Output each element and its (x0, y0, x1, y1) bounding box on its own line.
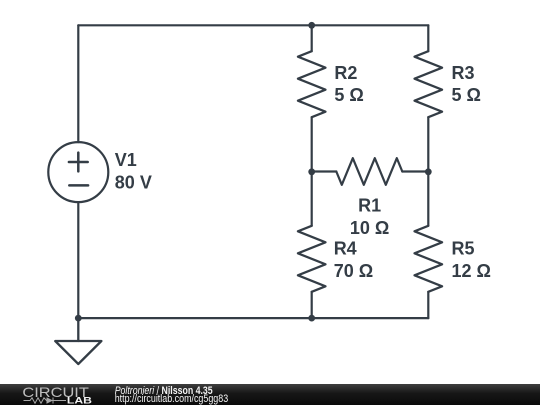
svg-text:R2: R2 (334, 63, 357, 83)
svg-text:R1: R1 (358, 195, 381, 215)
voltage source V1 (48, 142, 108, 202)
svg-text:R3: R3 (452, 63, 475, 83)
svg-text:12 Ω: 12 Ω (452, 261, 491, 281)
wire top horizontal (78, 24, 428, 26)
label R4 (334, 239, 373, 281)
svg-text:LAB: LAB (67, 395, 92, 405)
resistor R4 (298, 226, 326, 292)
wire left vertical upper (77, 25, 79, 142)
resistor R1 (336, 158, 402, 185)
CircuitLab logo resistor-diode glyph (24, 398, 67, 404)
wire mid column node to R4 (311, 172, 313, 226)
svg-text:70 Ω: 70 Ω (334, 261, 373, 281)
wire right column node to R5 (427, 172, 429, 226)
wire mid column lower lead (311, 292, 313, 318)
svg-text:10 Ω: 10 Ω (350, 218, 389, 238)
svg-text:R4: R4 (334, 239, 357, 259)
label R2 (334, 63, 363, 105)
wire right column between R3 and node (427, 117, 429, 172)
svg-text:5 Ω: 5 Ω (334, 85, 363, 105)
label R1 (350, 195, 389, 237)
svg-text:80 V: 80 V (115, 172, 152, 192)
wire R1 right lead (402, 170, 428, 172)
resistor R3 (415, 51, 443, 117)
resistor R2 (298, 51, 326, 117)
CircuitLab logo diode triangle (47, 397, 54, 404)
wire left vertical lower (77, 202, 79, 318)
wire mid column between R2 and node (311, 117, 313, 172)
wire R1 left lead (312, 170, 337, 172)
svg-text:http://circuitlab.com/cg5gg83: http://circuitlab.com/cg5gg83 (115, 393, 229, 405)
wire mid column upper lead (311, 25, 313, 51)
junction dot mid-left node (308, 168, 315, 175)
label R5 (452, 239, 491, 281)
junction dot mid-right node (425, 168, 432, 175)
svg-text:5 Ω: 5 Ω (452, 85, 481, 105)
junction dot bottom mid (308, 315, 315, 322)
junction dot top (308, 22, 315, 29)
wire right column lower lead (427, 292, 429, 318)
wire bottom horizontal (78, 317, 428, 319)
svg-text:V1: V1 (115, 150, 137, 170)
ground (55, 318, 101, 364)
label R3 (452, 63, 481, 105)
wire right column upper lead (427, 25, 429, 51)
resistor R5 (415, 226, 443, 292)
footer bar (0, 384, 540, 405)
junction dot bottom left (75, 315, 82, 322)
label V1 (115, 150, 152, 192)
svg-text:R5: R5 (452, 239, 475, 259)
